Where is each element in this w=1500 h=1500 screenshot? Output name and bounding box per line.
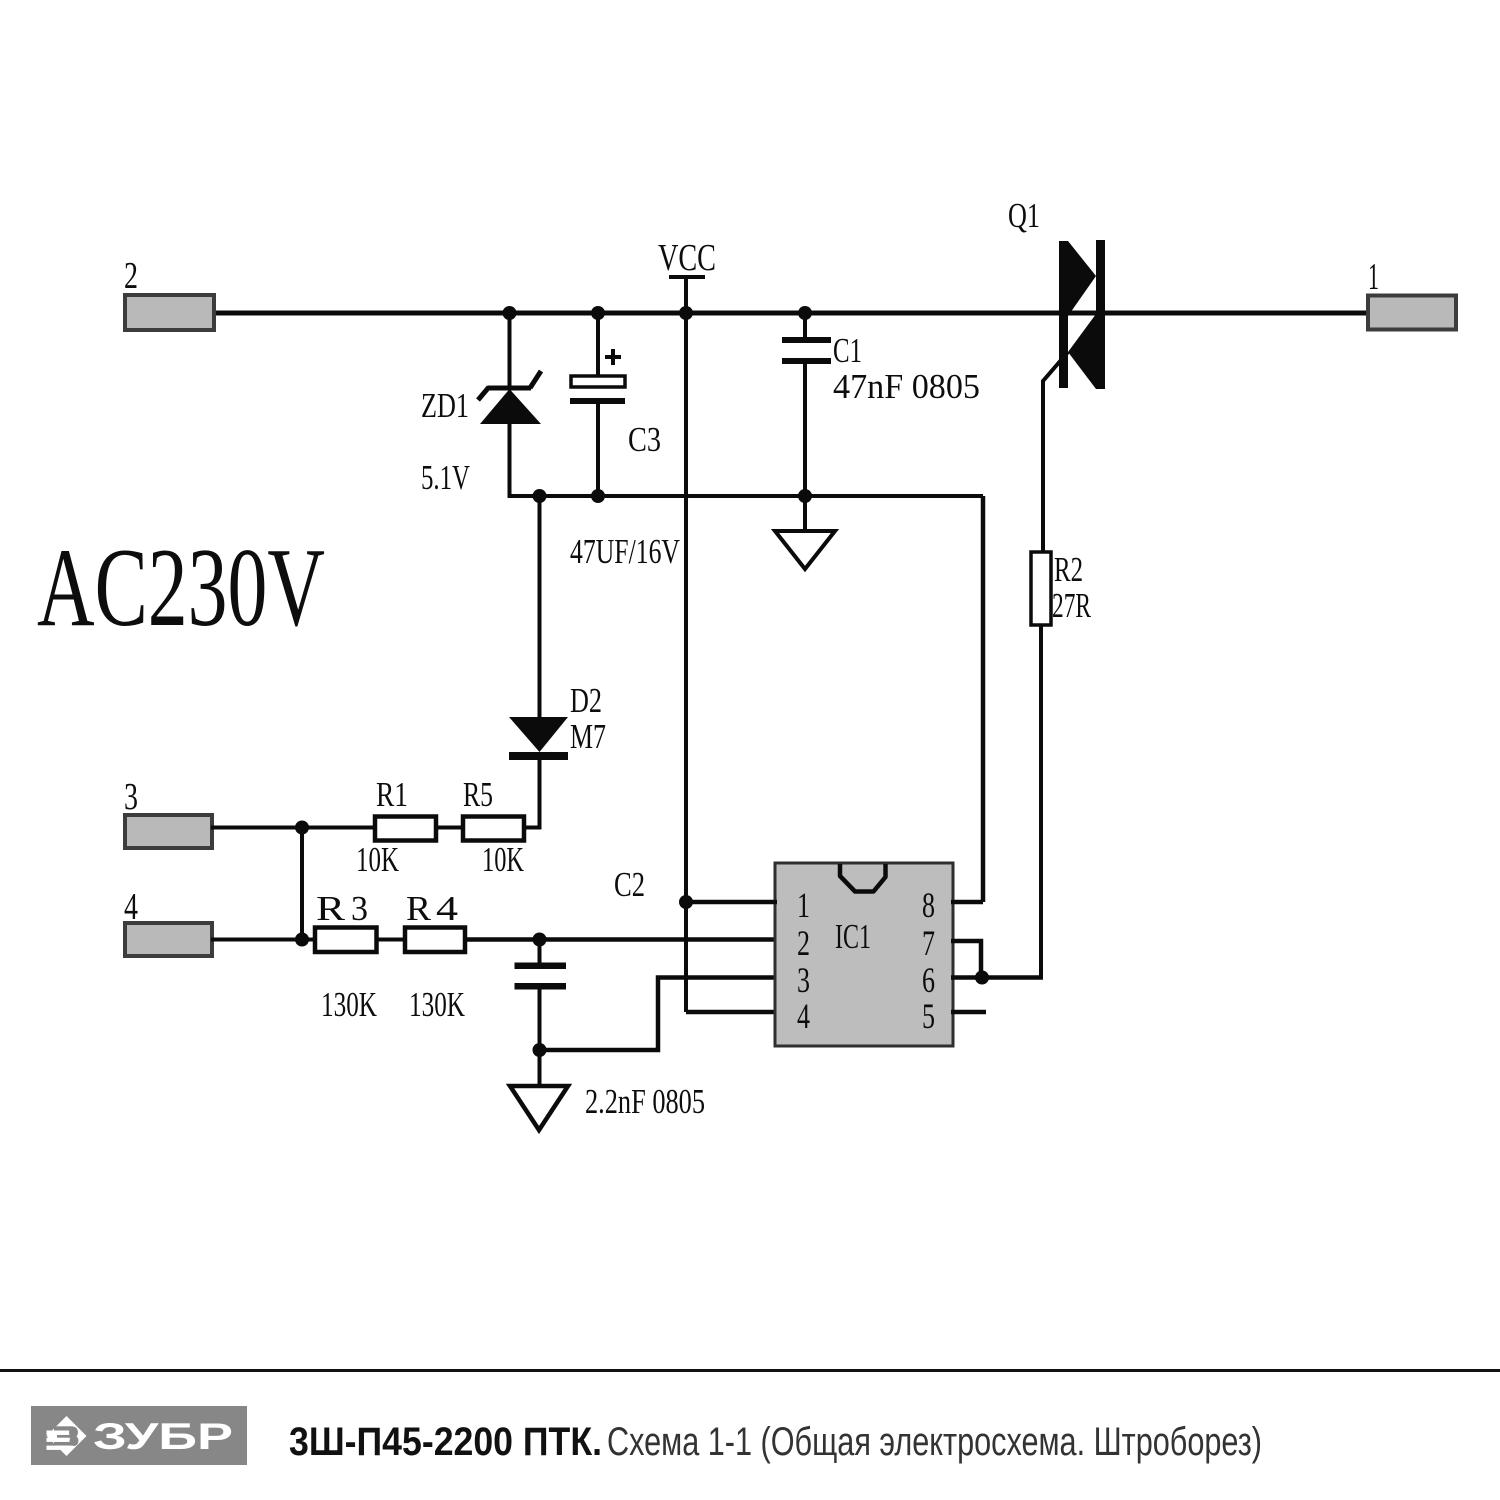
logo ZUBR <box>31 1406 247 1465</box>
wire VCC vertical down to IC pin4 <box>686 277 777 1012</box>
svg-text:R: R <box>316 889 346 928</box>
svg-text:1: 1 <box>797 885 810 925</box>
svg-text:Q1: Q1 <box>1008 196 1040 235</box>
svg-text:IC1: IC1 <box>835 917 871 956</box>
ground under C1 <box>775 496 835 569</box>
svg-text:R5: R5 <box>463 775 493 814</box>
wire IC pin8 stub <box>951 900 983 905</box>
wire IC pin5 stub <box>951 1010 986 1015</box>
zener ZD1 <box>421 313 541 498</box>
svg-text:3: 3 <box>351 889 368 928</box>
svg-text:3Ш-П45-2200 ПТК.: 3Ш-П45-2200 ПТК. <box>289 1420 602 1464</box>
svg-text:R2: R2 <box>1054 550 1083 589</box>
ground under C2 <box>510 1050 568 1130</box>
svg-text:5: 5 <box>922 996 935 1036</box>
svg-text:130K: 130K <box>321 985 377 1024</box>
capacitor C2 <box>515 865 706 1121</box>
diode D2 <box>509 496 606 829</box>
caption title <box>289 1420 1262 1464</box>
svg-text:C3: C3 <box>628 420 661 459</box>
svg-text:5.1V: 5.1V <box>421 458 470 497</box>
wire IC pin1 to VCC line <box>686 900 777 905</box>
resistor R1 <box>356 775 436 879</box>
terminal 2 <box>124 255 214 330</box>
svg-text:10K: 10K <box>482 840 524 879</box>
svg-text:ЗУБР: ЗУБР <box>93 1416 233 1457</box>
svg-text:3: 3 <box>124 776 138 818</box>
separator line <box>0 1369 1500 1372</box>
IC U1 body <box>775 863 953 1046</box>
terminal 4 <box>124 886 212 956</box>
svg-text:Схема 1-1 (Общая электросхема.: Схема 1-1 (Общая электросхема. Штроборез… <box>607 1420 1262 1464</box>
node VCC symbol <box>658 237 716 279</box>
wire R4 to IC pin2 <box>463 937 777 942</box>
wire row4 terminal4 to R3 <box>211 938 317 942</box>
wire IC pin7 bend to pin6 line <box>951 941 981 978</box>
wire R1 to R5 <box>433 826 464 830</box>
svg-text:47nF 0805: 47nF 0805 <box>833 367 980 406</box>
svg-text:6: 6 <box>922 960 935 1000</box>
svg-text:C2: C2 <box>614 865 645 904</box>
svg-text:R1: R1 <box>376 775 408 814</box>
junction dots <box>295 306 989 1057</box>
svg-text:8: 8 <box>922 885 935 925</box>
wire IC pin6 to R2 <box>951 975 1043 980</box>
svg-text:4: 4 <box>436 889 458 928</box>
svg-text:3: 3 <box>797 960 810 1000</box>
node AC230V label <box>37 526 325 650</box>
wire R3 to R4 <box>375 938 407 942</box>
resistor R5 <box>463 775 524 879</box>
svg-text:2: 2 <box>124 255 138 297</box>
wire C2 bottom to IC pin3 <box>540 978 778 1051</box>
capacitor C3 (electrolytic) <box>570 313 680 571</box>
triac Q1 <box>1008 196 1105 554</box>
svg-text:1: 1 <box>1368 256 1379 298</box>
svg-text:130K: 130K <box>409 985 465 1024</box>
wire row3 terminal3 to R1 <box>211 826 377 830</box>
svg-text:7: 7 <box>922 923 935 963</box>
svg-text:2: 2 <box>797 923 810 963</box>
svg-text:4: 4 <box>797 996 810 1036</box>
svg-text:R: R <box>406 889 432 928</box>
svg-text:2.2nF 0805: 2.2nF 0805 <box>585 1082 705 1121</box>
resistor R4 <box>405 889 465 1024</box>
svg-text:M7: M7 <box>570 717 606 756</box>
wire node3 vertical to row4 <box>300 828 304 940</box>
svg-text:D2: D2 <box>570 681 602 720</box>
capacitor C1 <box>782 313 980 496</box>
svg-text:VCC: VCC <box>658 237 716 279</box>
svg-text:10K: 10K <box>356 840 399 879</box>
resistor R2 <box>1031 550 1091 978</box>
wire zener bottom rail to pin8 drop <box>508 496 984 902</box>
svg-text:4: 4 <box>124 886 138 928</box>
svg-text:47UF/16V: 47UF/16V <box>570 532 680 571</box>
terminal 1 <box>1368 256 1456 330</box>
svg-text:C1: C1 <box>833 331 862 370</box>
svg-text:ZD1: ZD1 <box>421 386 469 425</box>
wire R5 to D2 <box>520 826 542 830</box>
resistor R3 <box>315 889 377 1024</box>
svg-text:27R: 27R <box>1052 586 1091 625</box>
wire main top rail <box>211 311 1370 316</box>
terminal 3 <box>124 776 212 848</box>
svg-text:AC230V: AC230V <box>37 526 325 650</box>
